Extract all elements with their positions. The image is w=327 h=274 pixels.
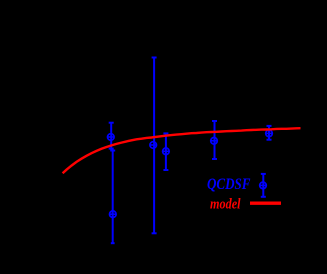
- svg-text:QCDSF: QCDSF: [207, 176, 251, 193]
- svg-text:model: model: [210, 197, 241, 213]
